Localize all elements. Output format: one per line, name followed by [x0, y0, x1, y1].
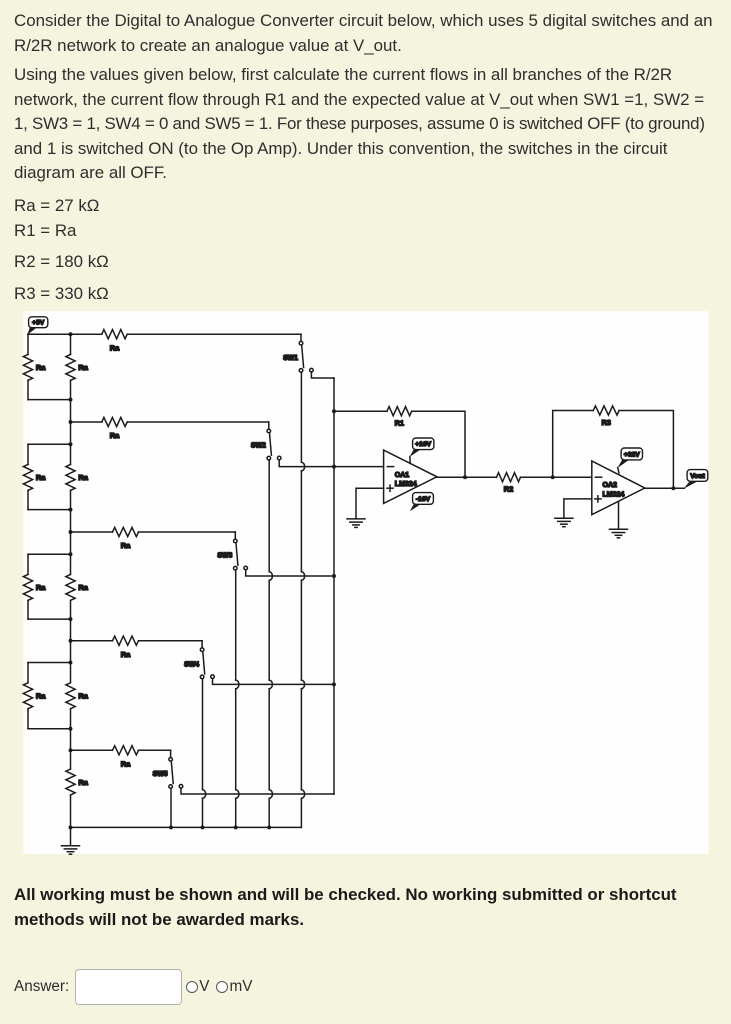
svg-text:R1: R1: [395, 419, 404, 428]
op-amp OA1 LM324: [384, 450, 437, 503]
wire op-amp input bus: [333, 378, 335, 794]
ground (OA1 +): [347, 518, 365, 520]
svg-text:Ra: Ra: [78, 691, 88, 700]
resistor Ra (stage 4 shunt left): [27, 663, 29, 683]
svg-text:Ra: Ra: [36, 473, 46, 482]
resistor R1: [387, 407, 412, 416]
svg-text:SW2: SW2: [251, 443, 266, 450]
wire stage 3 2R pair bottom join: [28, 618, 71, 620]
output flag Vout: [684, 481, 698, 489]
svg-text:Ra: Ra: [78, 363, 88, 372]
wire stage 2 rail to SW2: [127, 421, 269, 423]
svg-text:LM324: LM324: [603, 491, 625, 498]
resistor Ra (stage 2 shunt left): [27, 444, 29, 464]
wire stage 5 rail: [71, 749, 113, 751]
junction R1 node: [332, 409, 336, 413]
wire stage 1 2R pair bottom join: [28, 399, 71, 401]
circuit panel background: [23, 311, 708, 854]
wire stage 2 2R pair top join: [28, 443, 71, 445]
wire OA2 + input to ground: [564, 499, 592, 518]
svg-text:R3: R3: [601, 418, 610, 427]
junction SW2 throw on bus: [332, 465, 336, 469]
wire stage 3 2R pair top join: [28, 553, 71, 555]
wire stage 3 rail to SW3: [139, 531, 236, 533]
wire stage 2 2R pair bottom join: [28, 509, 71, 511]
wire R3 to output node: [619, 411, 673, 489]
ground (OA2 V-): [610, 528, 628, 530]
junction SW3 pole on ground bus: [234, 825, 238, 829]
switch SW4: [200, 648, 204, 652]
wire stage 4 rail: [71, 640, 113, 642]
svg-text:Ra: Ra: [110, 431, 120, 440]
wire stage 1 rail: [28, 333, 102, 335]
switch SW5: [169, 758, 173, 762]
svg-text:Ra: Ra: [36, 363, 46, 372]
node +5V junction: [69, 332, 73, 336]
wire SW2 pole to ground bus: [268, 460, 270, 572]
svg-text:Ra: Ra: [78, 778, 88, 787]
wire R1 feedback top: [334, 410, 387, 412]
svg-text:Ra: Ra: [36, 583, 46, 592]
wire SW1 pole to ground bus: [300, 372, 302, 462]
wire stage 4 2R pair top join: [28, 662, 71, 664]
wire SW1 throw to op-amp bus: [311, 372, 334, 378]
resistor Ra (stage 5 series rung): [113, 746, 139, 755]
wire input node to OA2 inverting input: [553, 476, 592, 478]
junction SW4 throw on bus: [332, 682, 336, 686]
resistor Ra (stage 4 series rung): [113, 636, 139, 645]
resistor Ra (stage 4 shunt right): [70, 663, 72, 683]
svg-text:LM324: LM324: [395, 481, 417, 488]
power flag -16V on OA1 V-: [410, 504, 421, 511]
wire stage 2 rail: [71, 421, 102, 423]
resistor Ra (stage 1 shunt left): [27, 334, 29, 354]
svg-text:Ra: Ra: [78, 583, 88, 592]
svg-text:OA2: OA2: [603, 482, 618, 489]
svg-text:R2: R2: [504, 484, 513, 493]
wire bus stage 1 to stage 2: [70, 400, 72, 422]
wire SW5 pole to ground bus: [170, 788, 172, 827]
junction SW5 pole on ground bus: [169, 825, 173, 829]
op-amp OA2 LM324: [592, 461, 645, 515]
wire stage 3 rail: [71, 531, 113, 533]
wire SW5 throw to op-amp bus: [181, 788, 334, 794]
ground (OA2 +): [555, 517, 573, 519]
svg-text:+16V: +16V: [415, 441, 432, 448]
junction SW2 pole on ground bus: [267, 825, 271, 829]
svg-text:Ra: Ra: [121, 760, 131, 769]
resistor Ra (stage 1 series rung): [102, 330, 127, 339]
junction OA1 output/feedback: [463, 475, 467, 479]
wire stage 4 2R pair bottom join: [28, 728, 71, 730]
junction SW4 pole on ground bus: [201, 825, 205, 829]
wire SW3 throw to op-amp bus: [246, 570, 334, 576]
wire bus to OA1 inverting input: [334, 466, 384, 468]
junction OA2 output/feedback: [671, 486, 675, 490]
wire SW2 throw to op-amp bus: [279, 460, 334, 467]
svg-text:Ra: Ra: [121, 541, 131, 550]
wire R1 to output node: [412, 411, 465, 477]
resistor Ra (stage 3 series rung): [113, 527, 139, 536]
svg-text:+5V: +5V: [32, 320, 45, 327]
wire OA1 + input to ground: [356, 488, 384, 519]
wire bus stage 2 to stage 3: [70, 422, 72, 444]
wire SW3 pole to ground bus: [235, 570, 237, 680]
resistor Ra (stage 1 shunt right): [70, 334, 72, 354]
power flag +32V on OA2 V+: [618, 468, 619, 473]
wire R2 to OA2 input node: [521, 476, 553, 478]
wire OA2 output: [645, 487, 685, 489]
svg-text:OA1: OA1: [395, 472, 410, 479]
wire stage 4 rail to SW4: [139, 640, 203, 642]
power flag +16V on OA1 V+: [409, 457, 411, 464]
OA2 non-inverting pin +: [595, 498, 601, 500]
svg-text:Ra: Ra: [121, 650, 131, 659]
wire bus stage 3 to stage 4: [70, 532, 72, 554]
OA2 inverting pin -: [595, 476, 601, 478]
svg-text:Ra: Ra: [78, 473, 88, 482]
ground (ladder): [70, 827, 72, 845]
wire SW4 pole to ground bus: [202, 679, 204, 790]
svg-text:Vout: Vout: [690, 473, 705, 480]
resistor Ra (stage 2 series rung): [102, 417, 127, 426]
OA1 inverting pin -: [387, 466, 393, 468]
switch SW2: [267, 429, 271, 433]
switch SW3: [234, 539, 238, 543]
wire stage 1 2R pair top join: [28, 333, 71, 335]
svg-text:SW3: SW3: [217, 553, 232, 560]
svg-text:-16V: -16V: [416, 496, 431, 503]
resistor Ra (ladder terminator): [70, 750, 72, 769]
resistor R2: [497, 473, 521, 482]
wire stage 1 rail to SW1: [127, 333, 301, 335]
svg-text:Ra: Ra: [110, 343, 120, 352]
svg-text:SW1: SW1: [283, 355, 298, 362]
svg-text:SW5: SW5: [153, 771, 168, 778]
wire OA2 V- pin to ground: [618, 501, 620, 529]
junction SW3 throw on bus: [332, 574, 336, 578]
wire ground bus: [71, 826, 302, 828]
wire R3 feedback left: [553, 411, 594, 478]
wire stage 5 rail to SW5: [139, 749, 171, 751]
OA1 non-inverting pin +: [387, 487, 393, 489]
wire OA1 output: [437, 476, 497, 478]
svg-text:+32V: +32V: [624, 451, 641, 458]
junction OA2 input node: [551, 475, 555, 479]
resistor Ra (stage 3 shunt right): [70, 554, 72, 574]
switch SW1: [299, 341, 303, 345]
power flag +5V: [27, 328, 36, 335]
wire bus stage 4 to stage 5: [70, 641, 72, 663]
resistor Ra (stage 2 shunt right): [70, 444, 72, 464]
svg-text:SW4: SW4: [184, 661, 199, 668]
svg-text:Ra: Ra: [36, 691, 46, 700]
resistor R3: [593, 406, 619, 415]
resistor Ra (stage 3 shunt left): [27, 554, 29, 574]
wire SW4 throw to op-amp bus: [213, 679, 335, 685]
